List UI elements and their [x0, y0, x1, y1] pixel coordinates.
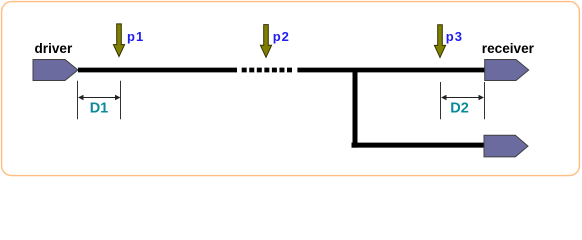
receiver symbol (top): [485, 60, 529, 81]
svg-text:p2: p2: [273, 29, 290, 44]
wire: main line dashed middle segment: [242, 68, 292, 73]
svg-text:p3: p3: [446, 29, 463, 44]
svg-text:p1: p1: [127, 29, 144, 44]
dimension D2 arrow line: [445, 97, 481, 99]
probe p3 arrow: [434, 25, 445, 58]
probe p1 arrow: [113, 24, 124, 57]
svg-text:driver: driver: [35, 41, 73, 56]
wire: branch bottom horizontal segment: [352, 143, 485, 148]
svg-text:D2: D2: [450, 100, 469, 116]
dimension D2 extension line left: [440, 82, 442, 119]
svg-text:D1: D1: [90, 100, 109, 116]
wire: main line solid left segment: [78, 68, 237, 73]
dimension D1 arrow line: [82, 97, 118, 99]
dimension D2 extension line right: [484, 82, 486, 119]
driver symbol: [33, 60, 78, 81]
wire: main line solid right segment: [297, 68, 484, 73]
dimension D1 extension line right: [120, 81, 122, 119]
dimension D1 extension line left: [77, 81, 79, 119]
probe p2 arrow: [260, 25, 271, 58]
svg-text:receiver: receiver: [482, 41, 535, 56]
receiver symbol (bottom): [484, 135, 528, 157]
wire: branch vertical segment: [353, 68, 358, 148]
